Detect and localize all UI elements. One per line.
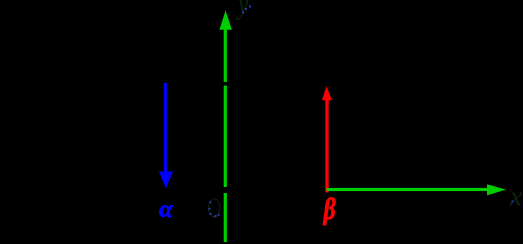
svg-text:β: β (323, 192, 336, 225)
y-axis arrowhead (219, 11, 232, 30)
svg-text:α: α (159, 196, 174, 223)
vector alpha arrowhead (159, 172, 173, 189)
wire x-axis shaft (327, 188, 489, 191)
node O origin glyph (dark) (209, 199, 220, 217)
vector beta arrowhead (322, 86, 332, 100)
wire y-axis shaft lower segment (224, 193, 227, 242)
node x label blue speck (512, 201, 514, 203)
svg-text:x: x (509, 181, 523, 213)
wire y-axis shaft middle segment (224, 86, 227, 188)
vector alpha shaft (blue, pointing down) (164, 83, 167, 172)
x-axis arrowhead (487, 184, 506, 195)
node y label blue specks (242, 6, 251, 14)
wire y-axis shaft top segment (224, 27, 227, 82)
node O origin blue specks (208, 201, 219, 217)
svg-text:y: y (236, 0, 249, 20)
vector beta shaft (red, pointing up) (325, 99, 328, 193)
